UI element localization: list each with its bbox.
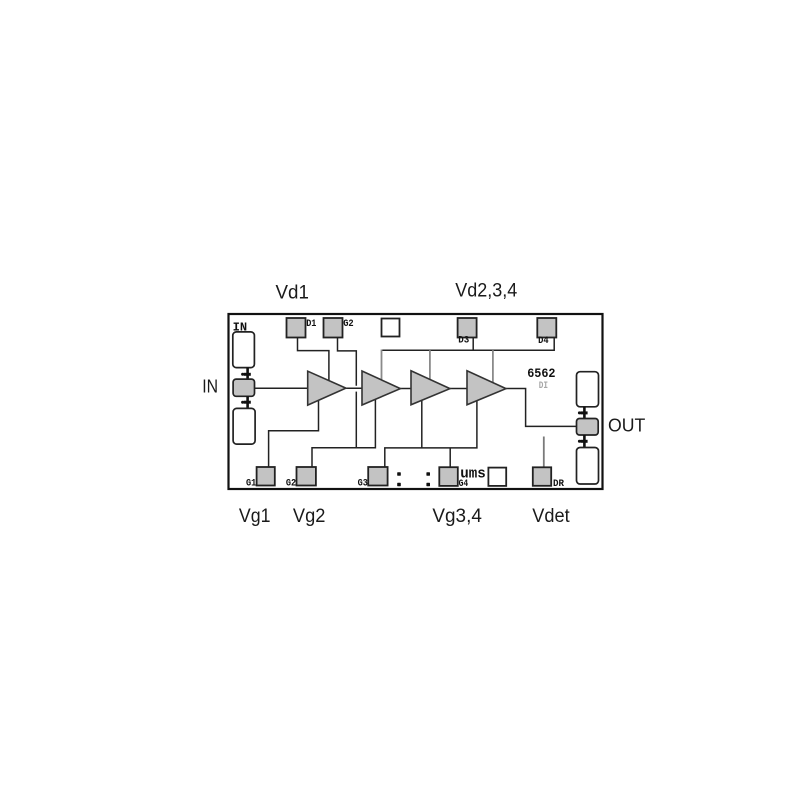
OUT port pad column: upper capacitor plate	[577, 372, 599, 407]
wire stage1 output to stage2 input	[346, 387, 362, 389]
pad D3	[458, 318, 477, 346]
wire stage2 output to stage3 input	[400, 388, 411, 390]
wire stage3 output to stage4 input	[450, 388, 467, 390]
svg-text:Vg3,4: Vg3,4	[432, 505, 482, 527]
svg-text:D1: D1	[306, 319, 316, 330]
wire stage4 output to OUT pad	[506, 389, 577, 427]
svg-text:Vg2: Vg2	[293, 505, 326, 527]
wire D1 pad to stage1 drain	[298, 338, 329, 381]
pad spare top (white)	[382, 319, 400, 337]
svg-text:G2: G2	[286, 478, 296, 489]
svg-text:D3: D3	[458, 335, 469, 346]
svg-text:IN: IN	[202, 377, 218, 397]
wire Vd2,3,4 rail	[382, 338, 555, 351]
wire rail drop to stage3 drain	[429, 350, 431, 380]
via cross upper-right	[578, 407, 588, 419]
via cross upper-left	[241, 368, 251, 379]
svg-text:OUT: OUT	[608, 416, 645, 436]
alignment dots pair 1	[397, 472, 401, 486]
svg-text:Vd1: Vd1	[276, 282, 309, 304]
pad D1	[287, 318, 317, 338]
IN bond pad (gray)	[233, 379, 254, 396]
svg-text:ums: ums	[460, 467, 486, 483]
via cross lower-right	[578, 435, 588, 448]
svg-text:Vdet: Vdet	[532, 505, 570, 527]
svg-text:DR: DR	[553, 479, 564, 490]
svg-text:G1: G1	[246, 478, 256, 489]
amplifier A4	[467, 371, 506, 405]
svg-text:Vd2,3,4: Vd2,3,4	[455, 279, 517, 301]
pad G1	[246, 467, 275, 489]
OUT port pad column: lower capacitor plate	[577, 448, 599, 485]
chip outline	[229, 314, 603, 489]
alignment dots pair 2	[426, 472, 430, 486]
svg-text:G3: G3	[358, 478, 368, 489]
OUT bond pad (gray)	[577, 419, 599, 436]
svg-text:6562: 6562	[527, 367, 555, 381]
amplifier A3	[411, 371, 450, 405]
pad DR	[533, 467, 564, 490]
amplifier A2	[362, 371, 400, 405]
wire rail riser stage3 gate	[421, 401, 423, 448]
wire G2 top pad crossover lower	[355, 392, 357, 448]
amplifier A1	[308, 371, 346, 405]
svg-text:Vg1: Vg1	[239, 505, 271, 527]
pad spare bottom (white)	[488, 468, 506, 486]
IN port pad column: lower capacitor plate	[233, 408, 255, 444]
svg-text:DI: DI	[539, 380, 548, 392]
pad G2 bottom	[286, 467, 316, 489]
wire G1 pad to stage1 gate	[269, 401, 319, 468]
IN port pad column: upper capacitor plate	[233, 332, 255, 368]
pad D4	[537, 318, 556, 347]
wire D3 pad stub	[472, 338, 474, 351]
wire G2 top pad crossover upper	[338, 338, 357, 386]
wire rail drop to G4 pad	[449, 448, 451, 467]
pad G4	[439, 467, 468, 490]
svg-text:D4: D4	[538, 336, 549, 347]
pad G3	[358, 467, 388, 489]
wire rail drop to stage4 drain	[492, 350, 494, 383]
wire DR detector stub	[543, 437, 545, 468]
wire G2 bias rail	[312, 399, 375, 467]
wire G3,4 bias rail	[385, 401, 477, 467]
pad G2 top	[324, 318, 354, 338]
wire rail drop to stage2 drain	[381, 350, 383, 381]
via cross lower-left	[241, 396, 251, 408]
svg-text:G2: G2	[343, 319, 354, 330]
wire IN pad to stage1 input	[255, 387, 308, 389]
